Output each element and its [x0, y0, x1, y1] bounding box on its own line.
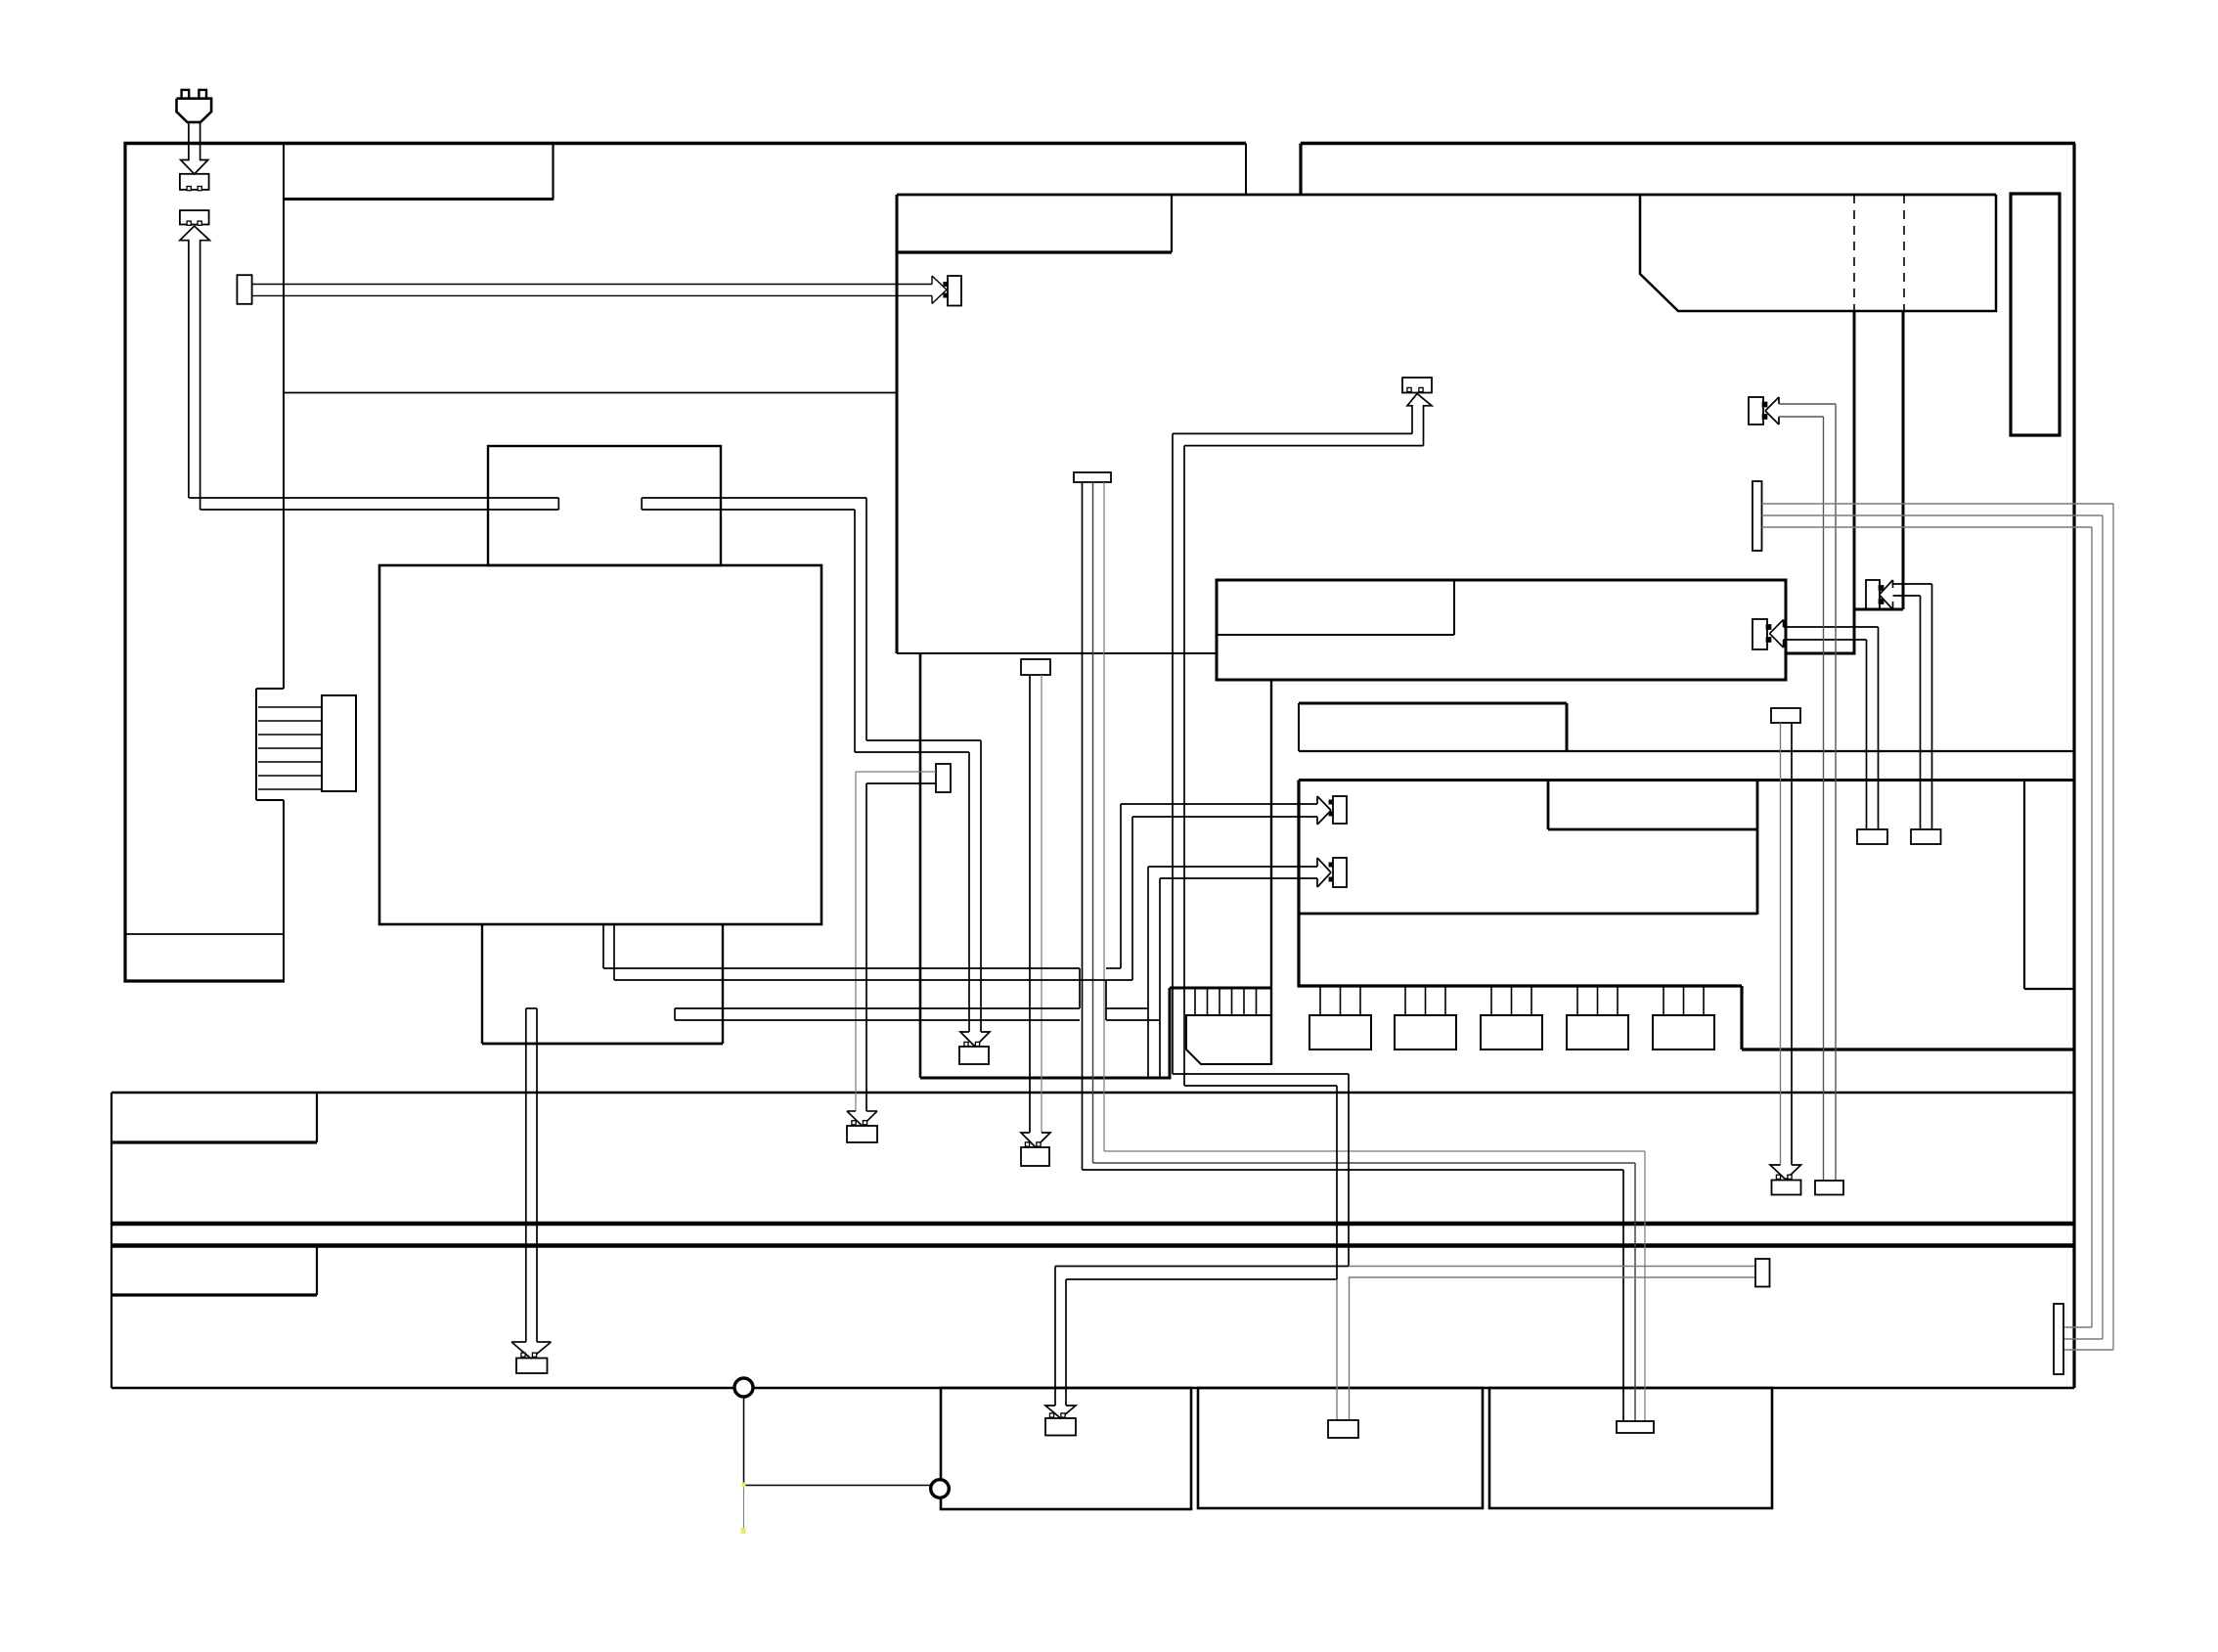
component: connector J6: [1857, 829, 1887, 844]
wire: lower box step bottom: [1742, 1048, 2074, 1050]
wire: band2 bottom edge: [111, 1387, 2074, 1390]
wire: band1 top edge: [111, 1092, 2074, 1094]
component: bus bar B2: [2054, 1304, 2063, 1374]
component: connector J10 in bottom box 2: [1328, 1420, 1358, 1438]
node: band1 label box: [111, 1093, 317, 1142]
wire: strip bottom line: [1299, 750, 2074, 752]
wire: center box notch vertical: [1171, 195, 1173, 252]
component: chamfered deflector box: [1640, 195, 1996, 311]
wire: center box bottom left segment: [897, 652, 1217, 654]
node: band2 label box: [111, 1246, 317, 1296]
wire: sub-box left vertical: [919, 653, 922, 1078]
wire: up arrow into J2: [180, 226, 210, 510]
wire: band2 junction right arm grey: [1349, 1267, 1755, 1278]
component: connector J4: [1021, 659, 1050, 675]
component: comb connector group 1: [1309, 986, 1371, 1049]
component: long horizontal box: [1217, 580, 1786, 680]
wire: right outer box left edge: [1299, 144, 1302, 196]
component: AC power plug: [177, 90, 212, 122]
wire: rod harness down: [526, 1008, 537, 1342]
wire: center box right edge jog: [1854, 608, 1903, 611]
wire: chassis top edge right section: [1301, 142, 2075, 145]
component: connector P9: [1329, 858, 1347, 887]
wire: center box top edge: [897, 194, 1996, 197]
component: multi-pin connector pins: [258, 707, 322, 789]
wire: P10 harness right and down: [1784, 627, 1879, 829]
wire: lower box inner divider: [1299, 913, 1757, 915]
wire: J5 left and down: [856, 772, 936, 1111]
component: connector P14: [1045, 1413, 1076, 1436]
component: connector P1: [944, 276, 961, 306]
component: bus bar B1: [1752, 481, 1762, 551]
wire: center box right edge lower: [1853, 311, 1856, 655]
wire: right arrow into P8: [1317, 796, 1331, 825]
component: connector P10: [1752, 619, 1771, 649]
wire: right narrow column bottom: [2024, 988, 2074, 990]
wire: left column bottom edge: [124, 979, 286, 982]
wire: left column inner line: [125, 933, 284, 935]
wire: P13 harness right and down: [1893, 584, 1932, 829]
wire: left outer box right edge: [1245, 144, 1247, 196]
wire: right arrow into P9: [1317, 858, 1331, 887]
component: connector J3: [237, 275, 251, 304]
wire: down arrow into P6: [1021, 1133, 1050, 1147]
wire: left arrow into P11: [1765, 397, 1779, 424]
wire: band2 junction left arm: [1055, 1267, 1349, 1406]
wire: band2 top edge: [111, 1243, 2074, 1248]
wire: center box bottom right segment: [1786, 652, 1856, 655]
component: multi-pin connector socket: [256, 689, 284, 800]
wire: trio drop from F1: [1083, 482, 1105, 1170]
wire: down arrow into P15: [511, 1342, 552, 1359]
node: terminal ring T1: [734, 1378, 753, 1397]
node: top inner box right edge: [552, 144, 554, 201]
component: connector P6: [1021, 1142, 1049, 1166]
wire: left arrow into P10: [1770, 620, 1784, 648]
wire: right outer box right edge: [2072, 144, 2075, 1389]
wire: trio drop to box3: [1623, 1151, 1645, 1421]
wire: hairpin harness: [603, 924, 1160, 1020]
wire: left column right edge lower: [283, 800, 285, 981]
wire: band2 left edge: [111, 1224, 112, 1388]
node: top inner box bottom: [283, 198, 554, 201]
component: comb connector group 3: [1481, 986, 1542, 1049]
wire: right narrow column left edge: [2023, 781, 2025, 990]
wire: comb assembly right vertical: [1270, 680, 1272, 1064]
component: connector P13: [1866, 580, 1884, 609]
component: mechanism lower box: [482, 924, 723, 1044]
wire: link left column to center box: [284, 392, 897, 394]
component: bus bar B3: [1755, 1259, 1770, 1287]
wire: harness across to band2: [1173, 1074, 1349, 1279]
wire: harness across to mechanism (right segment): [642, 498, 981, 1032]
component: connector P5: [959, 1042, 989, 1064]
wire: lower box top line: [1299, 779, 2074, 781]
component: bottom box 1: [941, 1388, 1191, 1509]
wire: T1 stem: [744, 1397, 931, 1486]
wire: down arrow into P12: [1770, 1165, 1801, 1180]
component: mechanism top box: [488, 446, 721, 565]
component: connector J1: [180, 174, 209, 191]
component: connector J9: [1402, 378, 1432, 393]
wire: lower box notch vertical left: [1547, 781, 1550, 830]
component: thin strip box: [1299, 703, 1567, 751]
component: bottom box 3: [1489, 1388, 1772, 1508]
wire: P11 harness right and down: [1779, 404, 1836, 1181]
component: comb assembly teeth: [1195, 988, 1257, 1015]
wire: pair F3 down: [1781, 723, 1793, 1165]
wire: band1 bottom edge: [111, 1222, 2074, 1227]
wire: sub-box right vertical: [1169, 988, 1172, 1080]
wire: harness J9 left and down: [1173, 433, 1424, 1086]
component: flag connector F2 in bottom box 3: [1617, 1421, 1654, 1433]
wire: lower box notch right edge: [1756, 781, 1759, 915]
component: comb connector group 4: [1567, 986, 1628, 1049]
component: mechanism main box: [379, 565, 821, 924]
component: connector P11: [1749, 397, 1767, 424]
component: connector J7 in band1: [1815, 1181, 1843, 1195]
wire: riser to arrow A1: [1121, 804, 1317, 980]
component: comb assembly body: [1186, 1015, 1271, 1064]
wire: pair J4 down: [1030, 675, 1042, 1133]
wire: left column left edge: [123, 142, 126, 983]
wire: harness J3 to P1: [252, 285, 932, 296]
component: connector J8: [1911, 829, 1941, 844]
wire: riser to arrow A2: [1148, 867, 1317, 1078]
component: connector J5: [936, 764, 951, 792]
wire: chassis top edge left section: [124, 142, 1247, 145]
node: terminal ring T2: [931, 1480, 950, 1498]
component: flag connector F1: [1074, 472, 1111, 482]
wire: center box notch bottom: [897, 250, 1172, 253]
wire: down arrow into P5: [960, 1032, 990, 1047]
wire: down arrow into P7: [847, 1111, 877, 1126]
component: connector J2: [180, 210, 209, 225]
wire: center box left edge: [896, 195, 899, 653]
component: bottom box 2: [1198, 1388, 1483, 1508]
wire: trio across band1: [1083, 1151, 1646, 1170]
component: lower center box left edge: [1297, 781, 1300, 987]
wire: right arrow into P1: [932, 276, 947, 304]
component: connector P7: [847, 1121, 877, 1142]
wire: down arrow into P14: [1045, 1406, 1076, 1418]
wire: left arrow into P13: [1880, 580, 1893, 609]
wire: center box right edge upper: [1902, 311, 1905, 609]
wire: lower box step vertical: [1740, 986, 1743, 1049]
wire: T1 stem grey tail: [741, 1483, 746, 1535]
wire: harness across to mechanism (left segment): [189, 498, 558, 510]
wire: left column right edge upper: [283, 144, 285, 690]
wire: lower box notch bottom: [1548, 828, 1757, 831]
component: connector P15: [516, 1353, 548, 1373]
component: comb connector group 5: [1653, 986, 1714, 1049]
wire: up arrow into J9: [1407, 394, 1432, 446]
wire: band1 left edge: [111, 1093, 112, 1224]
component: connector P12: [1772, 1175, 1801, 1194]
wire: lower center box bottom: [1298, 984, 1743, 987]
wire: band2 junction down arm grey: [1337, 1277, 1350, 1420]
component: multi-pin connector body: [322, 695, 356, 791]
component: flag connector F3: [1771, 708, 1800, 723]
component: tall side panel: [2011, 194, 2060, 435]
component: connector P8: [1329, 796, 1347, 824]
wire: plug cord with down arrow: [181, 122, 208, 174]
wire: sub-box bottom: [920, 1077, 1170, 1080]
component: comb connector group 2: [1395, 986, 1456, 1049]
wire: comb assembly top: [1170, 987, 1271, 990]
wire: 3-wire run B1 to B2: [1762, 504, 2114, 1350]
